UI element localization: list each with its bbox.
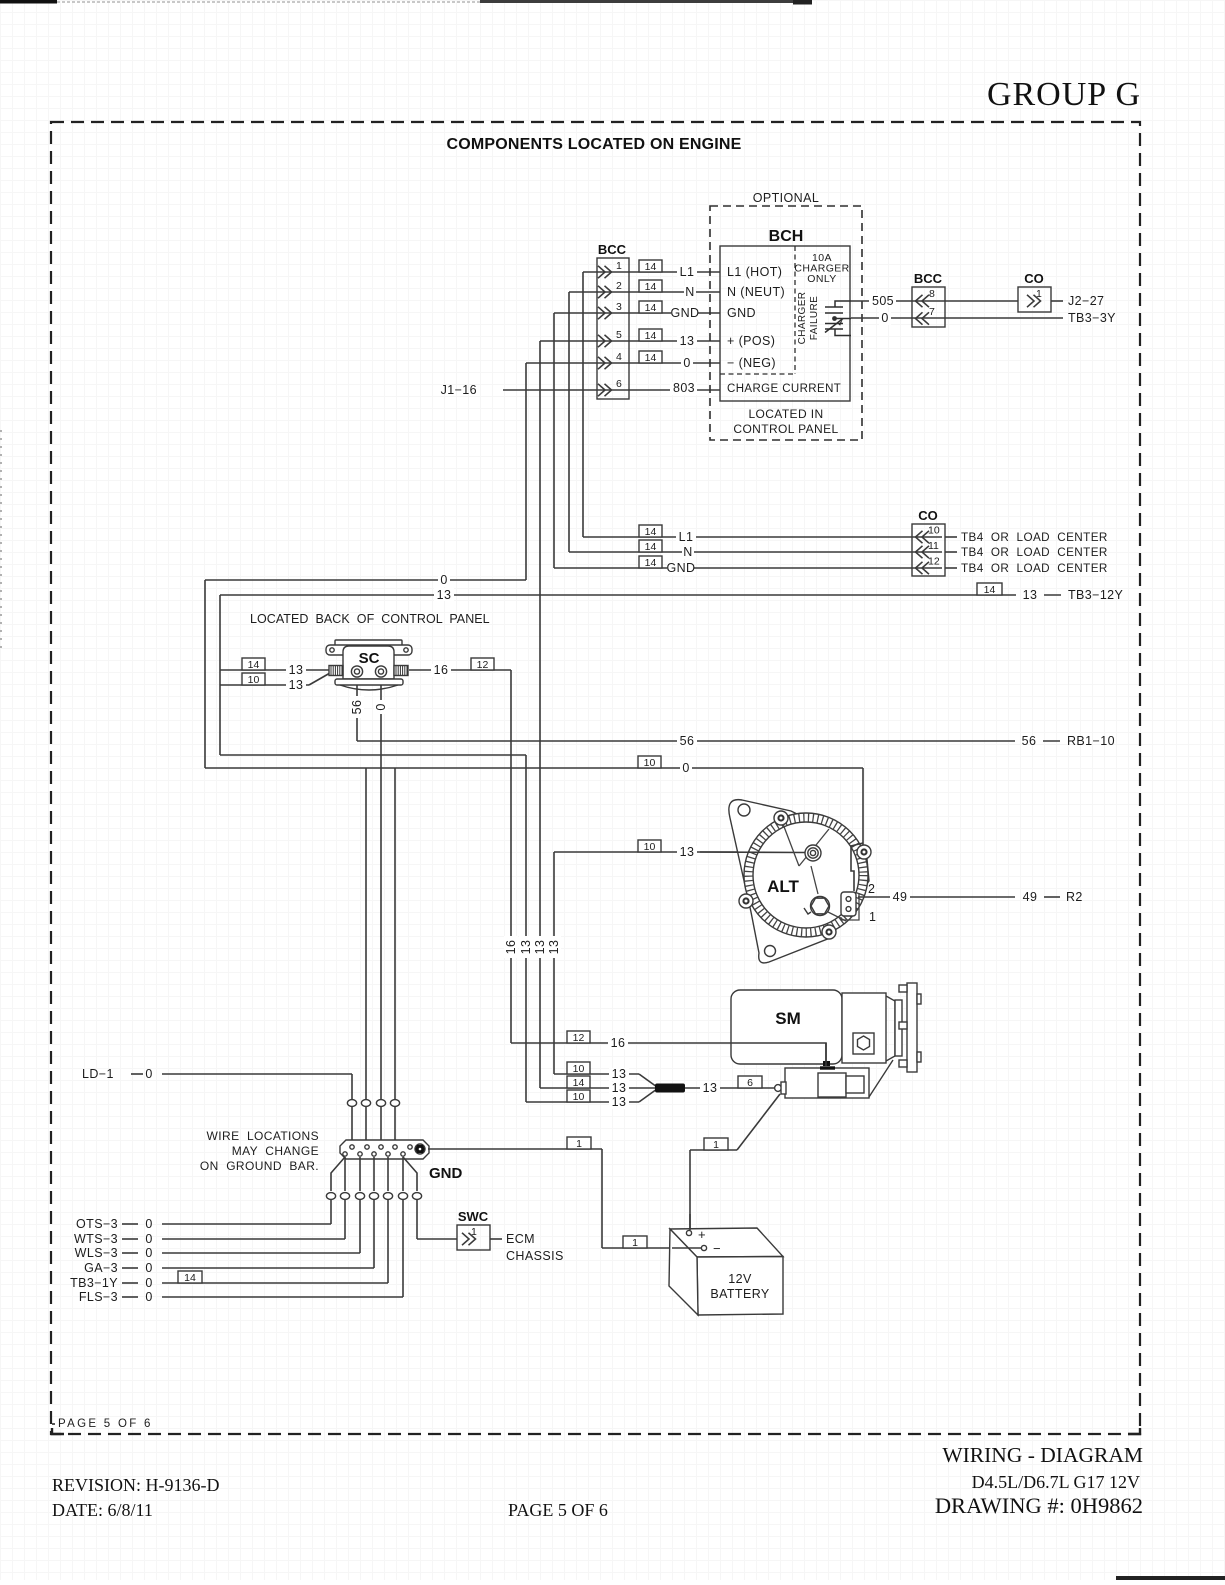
component R2: [1066, 890, 1083, 904]
ring terminal bottom 6: [398, 1193, 407, 1200]
wire 505 BCH to BCC-8: [851, 300, 1018, 302]
ground bar GND: [340, 1140, 463, 1182]
SC bottom plate: [335, 679, 403, 685]
dashed box OPTIONAL: [710, 206, 862, 440]
SC stud right threaded: [394, 666, 408, 676]
wire 49 ALT to R2: [858, 896, 1015, 898]
node WTS-3: [74, 1232, 118, 1246]
wire dash TB3-12Y: [1044, 594, 1061, 596]
wire J2-27 stub from CO-1: [1051, 300, 1063, 302]
node TB4 or load center 2: [961, 546, 1108, 559]
svg-text:TB4 OR LOAD CENTER: TB4 OR LOAD CENTER: [961, 531, 1108, 544]
SC terminal 56: [351, 666, 362, 677]
svg-text:14: 14: [184, 1272, 196, 1284]
wire 13 drop from ALT row: [553, 852, 555, 1074]
svg-text:49: 49: [1023, 890, 1038, 904]
wire 0 from SC down to ground bar: [380, 685, 382, 1099]
svg-text:12V: 12V: [728, 1272, 752, 1286]
label 10 on 13 row: [638, 840, 661, 853]
label 13 rotated: [519, 936, 533, 958]
svg-text:TB4 OR LOAD CENTER: TB4 OR LOAD CENTER: [961, 562, 1108, 575]
svg-text:BCC: BCC: [598, 242, 627, 257]
pin 3 BCC: [598, 301, 622, 319]
wire 1 over battery to -: [672, 1247, 701, 1249]
wire 13 BCC-5 to BCH +POS: [540, 340, 720, 342]
wire 0 BCH to TB3-3Y: [851, 317, 1063, 319]
svg-text:ON GROUND BAR.: ON GROUND BAR.: [200, 1159, 319, 1173]
svg-text:TB3−12Y: TB3−12Y: [1068, 588, 1124, 602]
wire N from BCC-2 down: [568, 292, 570, 552]
wire bar hole1: [344, 1157, 346, 1191]
pin 10 CO: [916, 525, 940, 544]
label GND: [667, 561, 696, 575]
battery - terminal: [701, 1241, 721, 1256]
node J2-27: [1068, 294, 1104, 308]
svg-text:GROUP G: GROUP G: [987, 76, 1141, 113]
label N: [684, 285, 696, 299]
wire 13 row to ALT stud: [554, 851, 806, 853]
svg-text:1: 1: [713, 1139, 719, 1151]
svg-text:13: 13: [612, 1067, 627, 1081]
svg-text:16: 16: [504, 940, 518, 955]
ring terminal top 3: [376, 1100, 385, 1107]
pin 1 CO: [1027, 288, 1042, 307]
label 1: [567, 1137, 591, 1150]
svg-text:10: 10: [644, 841, 656, 853]
svg-text:N (NEUT): N (NEUT): [727, 285, 785, 299]
wire N to CO-11: [569, 551, 942, 553]
wire 16 inside SM: [731, 1043, 826, 1066]
svg-text:6: 6: [747, 1077, 753, 1089]
svg-text:1: 1: [576, 1138, 582, 1150]
wire ring 2 to bar: [365, 1107, 367, 1142]
svg-text:RB1−10: RB1−10: [1067, 734, 1115, 748]
svg-text:0: 0: [682, 761, 689, 775]
svg-text:12: 12: [928, 556, 940, 568]
starter contactor SC: [326, 640, 412, 690]
label 10: [567, 1090, 590, 1103]
svg-text:11: 11: [928, 540, 939, 552]
svg-text:TB3−3Y: TB3−3Y: [1068, 311, 1116, 325]
label L1: [676, 530, 696, 544]
scan artifact bar top-middle: [480, 0, 795, 3]
SM solenoid cap: [818, 1073, 846, 1097]
svg-text:WTS−3: WTS−3: [74, 1232, 118, 1246]
wire L1 to CO-10: [583, 536, 942, 538]
pin 11 CO: [916, 540, 940, 558]
svg-text:CONTROL PANEL: CONTROL PANEL: [733, 422, 838, 436]
svg-text:56: 56: [350, 700, 364, 715]
wire 0 drop SWC: [416, 1200, 418, 1240]
label 0: [145, 1290, 152, 1304]
svg-text:D4.5L/D6.7L G17 12V: D4.5L/D6.7L G17 12V: [972, 1472, 1140, 1492]
label PAGE 5 OF 6 small: [52, 1423, 55, 1425]
svg-text:PAGE 5 OF 6: PAGE 5 OF 6: [58, 1418, 153, 1430]
wire 0 row WLS-3: [162, 1252, 360, 1254]
label 13: [609, 1095, 629, 1109]
svg-text:16: 16: [611, 1036, 626, 1050]
svg-text:13: 13: [680, 845, 695, 859]
svg-text:WIRE LOCATIONS: WIRE LOCATIONS: [207, 1129, 319, 1143]
wire 13 from BCC-5 down to splice row: [539, 341, 541, 1088]
label 13: [1023, 588, 1038, 602]
wire N BCC-2 to BCH: [569, 291, 720, 293]
svg-text:3: 3: [616, 301, 622, 313]
wire 0 drop WLS-3: [359, 1200, 361, 1254]
svg-text:DATE: 6/8/11: DATE: 6/8/11: [52, 1500, 153, 1520]
wire ring 3 to bar: [380, 1107, 382, 1142]
svg-text:49: 49: [893, 890, 908, 904]
scan artifact bar bottom-right: [1116, 1576, 1225, 1580]
scan artifact faint line top: [57, 1, 480, 3]
wire dash OTS-3: [122, 1223, 138, 1225]
wire 0 drop WTS-3: [344, 1200, 346, 1240]
ring terminal top 2: [361, 1100, 370, 1107]
svg-text:LOCATED BACK OF CONTROL PA: LOCATED BACK OF CONTROL PANEL: [250, 612, 490, 626]
pin 1 BCC: [598, 260, 622, 278]
svg-text:13: 13: [612, 1081, 627, 1095]
label 0: [145, 1276, 152, 1290]
frame corner bottom-right: [1128, 1428, 1140, 1434]
label 14 on 0 wire: [639, 351, 662, 364]
pin 4 BCC: [598, 351, 622, 369]
node TB4 or load center 3: [961, 562, 1108, 575]
wire 13 over ALT to stud: [700, 851, 806, 854]
wire dash TB3-1Y: [122, 1282, 138, 1284]
svg-text:10: 10: [644, 757, 656, 769]
wire diagonal into splice lower: [639, 1089, 657, 1102]
ring terminal bottom 3: [355, 1193, 364, 1200]
svg-text:7: 7: [929, 306, 935, 318]
ring terminal bottom 2: [340, 1193, 349, 1200]
wire 13 drop middle: [525, 755, 527, 1102]
SM bolt square: [853, 1033, 874, 1054]
starter motor SM: [731, 983, 921, 1098]
wire 13 row to drop: [220, 754, 526, 756]
svg-text:OTS−3: OTS−3: [76, 1217, 118, 1231]
svg-text:WIRING - DIAGRAM: WIRING - DIAGRAM: [942, 1443, 1143, 1467]
label 56: [1022, 734, 1037, 748]
wire dash RB1-10: [1043, 740, 1060, 742]
svg-text:L1: L1: [679, 530, 694, 544]
wire 56 from SC down: [356, 685, 358, 741]
label 14 on GND feeder: [639, 556, 662, 569]
ALT mount bolt left: [739, 894, 753, 908]
label 12 on 16 row: [567, 1031, 590, 1044]
wire 1 row to battery -: [602, 1247, 701, 1249]
svg-text:8: 8: [929, 288, 935, 300]
svg-text:14: 14: [645, 557, 657, 569]
wire + battery diagonal from solenoid: [737, 1094, 780, 1150]
svg-text:CO: CO: [918, 508, 938, 523]
wire 0 row WTS-3: [162, 1238, 345, 1240]
svg-text:+ (POS): + (POS): [727, 334, 775, 348]
ALT bracket lines: [783, 824, 829, 894]
svg-text:12: 12: [477, 659, 489, 671]
alternator ALT: [700, 800, 876, 963]
wire 0 drop TB3-1Y: [387, 1200, 389, 1284]
svg-text:N: N: [683, 545, 692, 559]
wire 0 BCC-4 to BCH -NEG: [526, 362, 720, 364]
svg-text:13: 13: [1023, 588, 1038, 602]
svg-text:56: 56: [680, 734, 695, 748]
pin 2 BCC: [598, 280, 622, 298]
svg-text:6: 6: [616, 378, 622, 390]
svg-text:13: 13: [547, 940, 561, 955]
wire 0 row OTS-3: [162, 1223, 331, 1225]
svg-text:BCH: BCH: [769, 228, 804, 245]
SC stud left threaded: [329, 666, 343, 676]
node WLS-3: [75, 1246, 118, 1260]
svg-text:OPTIONAL: OPTIONAL: [753, 191, 819, 205]
svg-text:+: +: [698, 1227, 706, 1242]
label 803: [670, 381, 697, 395]
label 0 rotated: [374, 700, 388, 714]
svg-text:0: 0: [145, 1290, 152, 1304]
wire 13 to SC stud left: [220, 669, 330, 671]
svg-text:14: 14: [248, 659, 260, 671]
svg-text:− (NEG): − (NEG): [727, 356, 776, 370]
wire 0 drop GA-3: [373, 1200, 375, 1269]
svg-text:0: 0: [145, 1067, 152, 1081]
svg-text:0: 0: [683, 356, 690, 370]
svg-text:13: 13: [612, 1095, 627, 1109]
pin 5 BCC: [598, 329, 622, 347]
svg-text:SWC: SWC: [458, 1209, 489, 1224]
label 13: [609, 1081, 629, 1095]
pin 7 BCC: [916, 306, 936, 325]
svg-text:0: 0: [145, 1217, 152, 1231]
wire 0 LD-1 row: [162, 1073, 352, 1075]
label 13: [700, 1081, 720, 1095]
SM flange bolts: [899, 985, 921, 1067]
label N: [682, 545, 694, 559]
label 49: [1023, 890, 1038, 904]
ALT mount bolt bottom: [822, 925, 836, 939]
node GA-3: [84, 1261, 118, 1275]
svg-text:1: 1: [869, 910, 876, 924]
svg-text:505: 505: [872, 294, 894, 308]
ALT mount bolt top: [774, 811, 788, 825]
wire bar hole3: [373, 1157, 375, 1191]
label 14 on TB3-1Y row: [178, 1271, 202, 1284]
svg-text:14: 14: [645, 302, 657, 314]
svg-text:0: 0: [145, 1276, 152, 1290]
node LD-1: [82, 1067, 114, 1081]
wire 13 splice to SM solenoid: [685, 1087, 775, 1089]
svg-text:0: 0: [440, 573, 447, 587]
wire stub SWC to ECM: [490, 1238, 502, 1240]
svg-text:J1−16: J1−16: [441, 383, 477, 397]
wire 1 GND to battery -: [428, 1148, 602, 1150]
node FLS-3: [79, 1290, 118, 1304]
node RB1-10: [1067, 734, 1115, 748]
label 1: [704, 1138, 728, 1151]
label 14: [567, 1076, 590, 1089]
svg-text:1: 1: [616, 260, 622, 272]
wire 16 drop inside SM: [825, 1043, 827, 1066]
svg-text:LD−1: LD−1: [82, 1067, 114, 1081]
svg-text:GND: GND: [429, 1165, 463, 1182]
label 13: [286, 663, 306, 677]
label 16: [431, 663, 451, 677]
ground bolt: [415, 1144, 425, 1154]
label 14 on L1 wire: [639, 260, 662, 273]
scan artifact bar top-left: [0, 0, 57, 4]
svg-text:−: −: [713, 1241, 721, 1256]
node OTS-3: [76, 1217, 118, 1231]
svg-text:REVISION: H-9136-D: REVISION: H-9136-D: [52, 1475, 219, 1495]
svg-text:CHARGER: CHARGER: [797, 292, 808, 345]
wire ring 1 to bar: [351, 1107, 353, 1142]
label 13: [286, 678, 306, 692]
label 12 on SC 16 wire: [471, 658, 494, 671]
switch charger failure contact: [825, 301, 851, 336]
SM bracket: [869, 1060, 893, 1097]
dashed border frame: [51, 122, 1140, 1434]
wire 0 row GA-3: [162, 1267, 374, 1269]
node ECM chassis: [506, 1232, 535, 1246]
svg-text:0: 0: [145, 1232, 152, 1246]
svg-text:PAGE 5 OF 6: PAGE 5 OF 6: [508, 1500, 608, 1520]
pin 1 SWC: [462, 1226, 477, 1245]
wire bar hole5 diag: [403, 1157, 417, 1191]
svg-text:13: 13: [289, 663, 304, 677]
svg-text:14: 14: [645, 541, 657, 553]
label 14 on 13 wire: [639, 329, 662, 342]
svg-text:SM: SM: [775, 1009, 801, 1028]
battery charger BCH: [720, 228, 851, 436]
svg-text:0: 0: [145, 1261, 152, 1275]
svg-text:LOCATED IN: LOCATED IN: [748, 407, 823, 421]
svg-text:COMPONENTS LOCATED ON ENGINE: COMPONENTS LOCATED ON ENGINE: [446, 136, 741, 153]
ALT stud wire: [828, 912, 846, 921]
label 505: [869, 294, 896, 308]
wire 0 drop left: [204, 580, 206, 768]
wire 0 row FLS-3: [162, 1296, 403, 1298]
svg-text:1: 1: [1036, 288, 1042, 300]
connector SWC: [457, 1209, 490, 1250]
svg-text:10: 10: [928, 525, 940, 537]
svg-text:SC: SC: [359, 650, 380, 667]
battery 12V: [669, 1227, 783, 1315]
wire dash GA-3: [122, 1267, 138, 1269]
svg-text:BATTERY: BATTERY: [710, 1287, 770, 1301]
wire 0 drop to ALT tab: [862, 768, 864, 845]
SM taper: [886, 996, 895, 1061]
svg-text:16: 16: [434, 663, 449, 677]
wire 13 drop left: [219, 595, 221, 755]
svg-text:10: 10: [573, 1091, 585, 1103]
connector CO (TB4): [912, 508, 945, 576]
svg-text:MAY CHANGE: MAY CHANGE: [232, 1144, 319, 1158]
wire 0 from BCC-4 down: [525, 363, 527, 580]
wire stub CO-10 to TB4: [945, 536, 957, 538]
wire dash R2: [1044, 896, 1060, 898]
wire GND to CO-12: [554, 567, 942, 569]
ring terminal bottom 7: [412, 1193, 421, 1200]
svg-text:FAILURE: FAILURE: [809, 296, 820, 340]
label 13: [677, 845, 697, 859]
svg-text:2: 2: [616, 280, 622, 292]
svg-text:DRAWING #: 0H9862: DRAWING #: 0H9862: [935, 1493, 1143, 1518]
label 16 rotated: [504, 936, 518, 958]
svg-text:10: 10: [248, 674, 260, 686]
wire dash FLS-3: [122, 1296, 138, 1298]
node TB3-12Y: [1068, 588, 1124, 602]
wire stub CO-11 to TB4: [945, 551, 957, 553]
wire 13 row lower to splice: [526, 1101, 639, 1103]
ALT center stud 13: [805, 845, 821, 861]
label 0: [438, 573, 450, 587]
ALT tab jog: [851, 843, 863, 891]
svg-text:CHARGE CURRENT: CHARGE CURRENT: [727, 383, 841, 395]
ring terminal bottom 4: [369, 1193, 378, 1200]
label 1: [623, 1236, 647, 1249]
svg-text:CHASSIS: CHASSIS: [506, 1249, 564, 1263]
svg-text:13: 13: [519, 940, 533, 955]
scan artifact blob: [793, 0, 812, 5]
svg-text:5: 5: [616, 329, 622, 341]
svg-text:13: 13: [437, 588, 452, 602]
svg-text:WLS−3: WLS−3: [75, 1246, 118, 1260]
ring terminal top 4: [390, 1100, 399, 1107]
wire 13 row upper to splice: [554, 1073, 639, 1075]
svg-text:ONLY: ONLY: [807, 273, 836, 285]
SM solenoid body: [785, 1068, 869, 1098]
wire GND BCC-3 to BCH: [554, 312, 720, 314]
wire 56 row to RB1-10: [357, 740, 1015, 742]
pin 6 BCC: [598, 378, 622, 396]
wire 0 LD-1 drop to ring: [351, 1074, 353, 1099]
svg-text:14: 14: [573, 1077, 585, 1089]
wire 1 drop to battery +: [689, 1150, 691, 1230]
label GND: [671, 306, 700, 320]
label 16: [608, 1036, 628, 1050]
label 0: [145, 1232, 152, 1246]
wire diagonal into splice upper: [639, 1074, 657, 1087]
wire 16 from SC stud right: [409, 669, 511, 671]
svg-text:TB3−1Y: TB3−1Y: [70, 1276, 118, 1290]
label 13 rotated: [533, 936, 547, 958]
label 14 on GND wire: [639, 301, 662, 314]
pin 8 BCC: [916, 288, 936, 307]
connector BCC (engine): [597, 242, 629, 399]
SC terminal 0: [375, 666, 386, 677]
label 0: [681, 356, 693, 370]
label 13: [434, 588, 454, 602]
wire 13 row middle to splice: [540, 1087, 656, 1089]
wire 13 to SC terminal lower: [220, 684, 309, 686]
wire 0 branch to ground bar 4: [394, 768, 396, 1099]
wire 0 branch to ground bar 2: [365, 768, 367, 1099]
label 0: [145, 1217, 152, 1231]
label 10 on 0 row: [638, 756, 661, 769]
SM solenoid terminal S: [775, 1082, 786, 1094]
wire 1 over battery to +: [689, 1214, 691, 1230]
connector CO (J2): [1018, 271, 1051, 312]
svg-text:4: 4: [616, 351, 622, 363]
svg-text:14: 14: [645, 261, 657, 273]
label 14 on N feeder: [639, 540, 662, 553]
svg-text:13: 13: [289, 678, 304, 692]
svg-text:TB4 OR LOAD CENTER: TB4 OR LOAD CENTER: [961, 546, 1108, 559]
svg-text:GA−3: GA−3: [84, 1261, 118, 1275]
wire L1 from BCC-1 down: [582, 272, 584, 537]
svg-text:N: N: [685, 285, 694, 299]
wire 1 row to battery +: [690, 1149, 737, 1151]
wire 1 drop right: [601, 1149, 603, 1248]
